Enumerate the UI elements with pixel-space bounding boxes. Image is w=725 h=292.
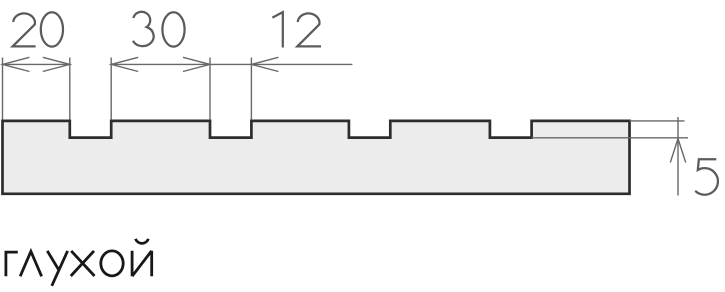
panel profile outline [3, 121, 630, 194]
caption глухой letter о [101, 251, 123, 276]
caption глухой letter л [20, 251, 41, 276]
label 20 digit 2 [13, 13, 36, 46]
caption глухой letter у [47, 251, 67, 286]
label 30 digit 0 [162, 12, 184, 46]
caption глухой letter й [132, 239, 152, 276]
arrow of dim 12 [251, 57, 278, 71]
arrow left of dim 30 [111, 57, 138, 71]
dimension line 30 and 12 tail [111, 63, 352, 65]
caption глухой letter г [6, 252, 18, 276]
label 12 digit 2 [297, 13, 321, 46]
arrow of dim 5 [670, 139, 685, 163]
dimension line 20 [3, 63, 70, 65]
extension line groove depth for dim 5 [532, 137, 688, 139]
extension line groove1 left [69, 58, 71, 120]
label 5 digit [695, 159, 718, 194]
caption глухой letter х [71, 251, 95, 276]
extension line left edge [2, 58, 4, 120]
arrow left of dim 20 [3, 57, 30, 71]
extension line groove2 right [250, 58, 252, 120]
panel profile body fill [3, 121, 630, 194]
extension line groove2 left [209, 58, 211, 120]
arrow right of dim 30 [183, 57, 210, 71]
label 30 digit 3 [133, 12, 154, 46]
arrow right of dim 20 [43, 57, 70, 71]
extension line groove1 right [110, 58, 112, 120]
label 12 digit 1 [272, 12, 282, 47]
dimension line 5 vertical [677, 117, 679, 196]
label 20 digit 0 [41, 12, 63, 46]
extension line top for dim 5 [630, 120, 685, 122]
